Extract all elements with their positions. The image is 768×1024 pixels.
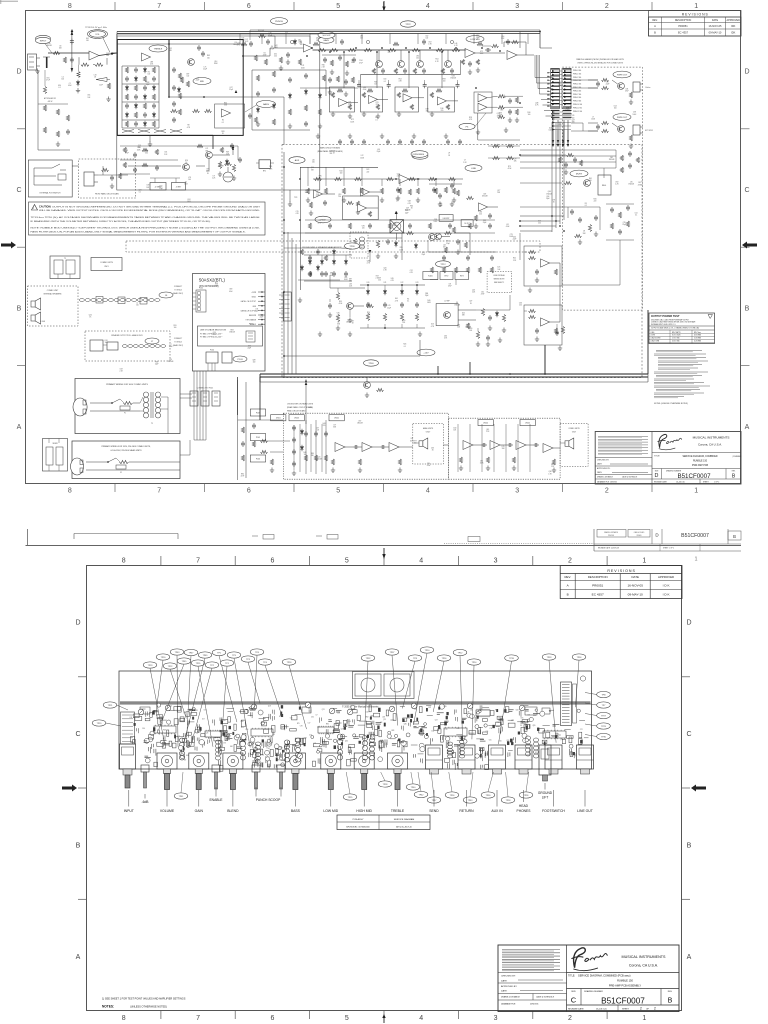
- title block signature rows: [595, 457, 652, 459]
- svg-text:0.1: 0.1: [396, 200, 398, 202]
- resistor R11: [186, 81, 189, 87]
- svg-text:2.2K: 2.2K: [551, 466, 555, 468]
- svg-text:DATABASE FILE:: DATABASE FILE:: [501, 1003, 516, 1006]
- primary wiring 120V box: [72, 441, 180, 479]
- eq bus second wire: [361, 73, 461, 75]
- gyrator cells: [376, 61, 383, 68]
- resistor R16: [254, 55, 257, 61]
- svg-text:R20: R20: [269, 166, 272, 168]
- svg-text:P/T MAX: (TYPE B) 220-240V ~: P/T MAX: (TYPE B) 220-240V ~: [200, 336, 223, 339]
- svg-text:10K: 10K: [457, 327, 461, 329]
- svg-text:D32: D32: [405, 210, 408, 212]
- svg-text:L40: L40: [312, 159, 315, 161]
- svg-text:47uF: 47uF: [427, 465, 431, 467]
- test point balloon TP1: [220, 660, 234, 666]
- crossover dotted box head: [283, 413, 448, 479]
- input jack assembly: [120, 744, 136, 769]
- clip LED arrow: [96, 78, 107, 82]
- svg-text:47uF: 47uF: [448, 286, 452, 288]
- svg-text:U81: U81: [340, 736, 343, 738]
- svg-text:P105: P105: [256, 437, 260, 439]
- svg-text:1K: 1K: [207, 173, 210, 175]
- eq series resistors: [318, 48, 326, 51]
- svg-text:C17: C17: [308, 722, 311, 724]
- svg-text:1N4148: 1N4148: [628, 184, 634, 186]
- svg-text:10K: 10K: [300, 44, 304, 46]
- page3 legal text block: [566, 945, 568, 1012]
- top double wire run: [117, 31, 540, 33]
- Q10 network: [407, 231, 414, 234]
- svg-text:100: 100: [614, 108, 617, 110]
- svg-text:VTH CHANGE: VTH CHANGE: [246, 319, 256, 322]
- svg-text:SERVICE DIAGRAM, COMBINED: SERVICE DIAGRAM, COMBINED: [682, 455, 717, 458]
- wire junction dots field: [168, 43, 170, 45]
- svg-text:Q26: Q26: [506, 740, 509, 742]
- capacitor chain C1: [71, 30, 73, 71]
- svg-text:22pF: 22pF: [546, 198, 550, 200]
- svg-text:RELEASE DATE: 24-NOV-08: RELEASE DATE: 24-NOV-08: [598, 547, 619, 550]
- Q6 network: [602, 121, 609, 124]
- feedback resistors: [78, 57, 80, 64]
- svg-text:RUMBLE 150: RUMBLE 150: [617, 979, 633, 983]
- mixer stubs: [396, 212, 398, 220]
- svg-text:100: 100: [186, 76, 189, 78]
- svg-text:6: 6: [247, 488, 251, 495]
- midleft extra parts row: [123, 147, 126, 153]
- aux top parts: [525, 707, 537, 715]
- svg-text:C69: C69: [483, 193, 486, 195]
- svg-text:-6dB: -6dB: [142, 800, 150, 804]
- test point balloon TP9: [227, 652, 241, 658]
- svg-text:L69: L69: [378, 277, 381, 279]
- svg-text:2: 2: [640, 1007, 642, 1011]
- svg-text:C77: C77: [333, 424, 336, 426]
- head speaker icon: [419, 441, 423, 447]
- svg-text:U23: U23: [382, 717, 385, 719]
- svg-text:C2: C2: [62, 76, 64, 78]
- output power test box: [649, 313, 715, 344]
- page3 size number rev row: [567, 988, 680, 990]
- page3 title section: [567, 972, 680, 974]
- svg-text:100: 100: [528, 114, 531, 116]
- svg-text:R24: R24: [403, 344, 406, 346]
- harness horizontal to primary box: [180, 393, 192, 395]
- svg-text:D15: D15: [502, 446, 505, 448]
- svg-text:PASS FILTER (BUILT-IN, FOR AN: PASS FILTER (BUILT-IN, FOR AN AUDIO-BAND…: [31, 230, 247, 233]
- svg-text:PWR+8 SIG: PWR+8 SIG: [573, 97, 582, 99]
- svg-text:(HEAD ONLY): (HEAD ONLY): [173, 344, 184, 347]
- svg-text:D1: D1: [520, 725, 522, 727]
- svg-text:22pF: 22pF: [446, 243, 450, 245]
- svg-text:L70: L70: [630, 182, 633, 184]
- svg-text:D20: D20: [427, 463, 430, 465]
- svg-text:R55: R55: [344, 277, 347, 279]
- top center parts: [376, 241, 379, 248]
- svg-text:D28: D28: [566, 108, 569, 110]
- svg-text:CAGE & SCHEDULE: CAGE & SCHEDULE: [536, 996, 555, 999]
- svg-text:Q41: Q41: [298, 39, 301, 41]
- svg-text:C73: C73: [559, 122, 562, 124]
- balloon FX: [459, 123, 475, 129]
- potentiometer LOW MID: [321, 753, 341, 769]
- svg-text:R2: R2: [222, 120, 224, 122]
- svg-text:47uF: 47uF: [481, 293, 485, 295]
- svg-text:(HEAD ONLY): (HEAD ONLY): [173, 292, 184, 295]
- svg-text:D85: D85: [521, 717, 524, 719]
- svg-text:100K: 100K: [360, 157, 365, 159]
- center v-wire A: [299, 167, 301, 290]
- svg-text:1K: 1K: [432, 450, 435, 452]
- svg-text:RELEASE DATE:: RELEASE DATE:: [568, 1008, 585, 1011]
- svg-text:22pF: 22pF: [260, 316, 264, 318]
- svg-text:LOAD: LOAD: [651, 331, 655, 334]
- svg-text:Q77: Q77: [497, 190, 500, 192]
- test point balloon TP10: [420, 647, 434, 653]
- combo units label box: [91, 258, 122, 271]
- svg-text:Q50: Q50: [407, 718, 410, 720]
- svg-text:7: 7: [196, 558, 200, 565]
- svg-text:C34: C34: [137, 147, 140, 149]
- filled arrowheads field: [235, 90, 238, 93]
- svg-text:100: 100: [338, 196, 341, 198]
- eq bus wire: [313, 49, 467, 51]
- test point balloon TP34: [572, 654, 586, 660]
- svg-text:2.2K: 2.2K: [472, 292, 476, 294]
- svg-text:APPROVED BY:: APPROVED BY:: [501, 985, 518, 988]
- page3 top center arrow: [383, 548, 385, 556]
- svg-text:CAGE & SCHEDULE: CAGE & SCHEDULE: [622, 476, 637, 479]
- svg-text:47uF: 47uF: [363, 89, 367, 91]
- ground G4b: [108, 97, 110, 100]
- svg-text:33K: 33K: [337, 324, 341, 326]
- svg-text:R44: R44: [339, 170, 342, 172]
- svg-text:PUNCH SCOOP: PUNCH SCOOP: [256, 798, 281, 802]
- thick power rails: [260, 373, 648, 375]
- test point balloon TP43: [170, 649, 184, 655]
- svg-text:1N4148: 1N4148: [482, 196, 488, 198]
- transistor Q1: [188, 59, 195, 66]
- pcb board outline: [119, 671, 592, 769]
- external footswitch box: [28, 160, 72, 197]
- svg-text:Q41: Q41: [610, 157, 613, 159]
- svg-text:C72: C72: [347, 320, 350, 322]
- ladder mid components: [172, 68, 176, 70]
- board mount hole TR: [580, 676, 585, 681]
- svg-text:PR0051: PR0051: [592, 584, 603, 588]
- svg-text:DATE: DATE: [712, 19, 719, 22]
- fender logo page1: [658, 434, 682, 449]
- output jack B: [633, 125, 640, 135]
- svg-text:U90: U90: [58, 85, 61, 87]
- balloon SCOOP: [318, 32, 335, 39]
- balloon J6: [159, 292, 173, 298]
- svg-text:CONNECT: CONNECT: [174, 286, 182, 288]
- svg-text:10K: 10K: [59, 48, 63, 50]
- svg-text:U92: U92: [615, 181, 618, 183]
- svg-text:WILL BE DAMAGED. VIEW OUTPU: WILL BE DAMAGED. VIEW OUTPUT NOTES: OSCI…: [39, 209, 261, 212]
- svg-text:D17: D17: [202, 719, 205, 721]
- combo label box1: [478, 420, 493, 426]
- test point balloon TP41: [174, 793, 188, 799]
- svg-text:4.7K: 4.7K: [367, 263, 371, 265]
- transistor Q5: [618, 83, 625, 90]
- svg-text:L46: L46: [455, 43, 458, 45]
- svg-text:SEE SHEET 2: SEE SHEET 2: [494, 282, 504, 284]
- svg-text:U52: U52: [274, 53, 277, 55]
- svg-text:R40: R40: [427, 300, 430, 302]
- svg-text:C66: C66: [268, 744, 271, 746]
- svg-text:1: 1: [694, 557, 697, 563]
- svg-text:100K: 100K: [184, 184, 189, 186]
- svg-text:47uF: 47uF: [46, 80, 50, 82]
- svg-text:T2: T2: [64, 258, 66, 260]
- dual op-amp U10: [478, 94, 487, 102]
- test point balloon TP28: [378, 781, 392, 787]
- svg-text:IF MEASURED WITH THE VOLMETER: IF MEASURED WITH THE VOLMETER BETWEEN, D…: [31, 220, 212, 223]
- svg-text:100: 100: [412, 156, 415, 158]
- head amp A1: [335, 443, 345, 452]
- svg-text:COMBO UNIT: COMBO UNIT: [47, 290, 59, 292]
- svg-text:U72: U72: [480, 51, 483, 53]
- front panel jack: [84, 172, 94, 186]
- svg-text:R83: R83: [443, 79, 446, 81]
- svg-text:HEAD: HEAD: [519, 804, 529, 808]
- svg-text:© 2005 Fender Musical Instrume: © 2005 Fender Musical Instruments: [342, 706, 379, 709]
- pcb interior second pass: [569, 749, 571, 756]
- xover inter wires: [559, 263, 561, 322]
- svg-text:C65: C65: [489, 740, 492, 742]
- xover head label box2: [329, 415, 344, 421]
- page2 bottom border: [26, 545, 742, 547]
- resistor ladder grid: [125, 67, 128, 73]
- svg-text:0.1: 0.1: [635, 214, 637, 216]
- xfmr small box: [43, 439, 68, 472]
- svg-text:22pF: 22pF: [229, 89, 233, 91]
- svg-text:FRONT PANEL CIRCUIT BOARD: FRONT PANEL CIRCUIT BOARD: [95, 193, 120, 196]
- mini switch ENABLE: [212, 765, 220, 772]
- svg-text:4.7K: 4.7K: [408, 203, 412, 205]
- svg-text:D14: D14: [614, 105, 617, 107]
- svg-text:R83: R83: [551, 464, 554, 466]
- diode D2: [177, 89, 180, 92]
- svg-text:100: 100: [304, 454, 307, 456]
- transistor Q10: [429, 234, 436, 241]
- svg-text:RETURN: RETURN: [459, 809, 474, 813]
- svg-text:D29: D29: [120, 369, 123, 371]
- svg-text:CHECKED BY:: CHECKED BY:: [501, 976, 516, 978]
- svg-text:L78: L78: [301, 65, 304, 67]
- balloon LOW MID: [466, 36, 484, 43]
- svg-text:TP22: TP22: [405, 24, 411, 26]
- fuse 100V: [120, 406, 130, 410]
- resistor R17: [259, 34, 266, 37]
- svg-text:5: 5: [345, 1015, 349, 1022]
- balloon MID: [193, 78, 211, 85]
- svg-text:DATE:: DATE:: [501, 990, 508, 993]
- mid-treble board outline: [117, 34, 320, 190]
- svg-text:220: 220: [594, 201, 597, 203]
- pot icon: [223, 172, 233, 182]
- svg-text:C73: C73: [223, 743, 226, 745]
- svg-text:220: 220: [274, 55, 277, 57]
- svg-text:16-NOV-05: 16-NOV-05: [627, 584, 643, 588]
- svg-text:APPROVED: APPROVED: [727, 19, 741, 22]
- svg-text:D20: D20: [367, 282, 370, 284]
- svg-text:100: 100: [416, 57, 419, 59]
- svg-text:U69: U69: [229, 289, 232, 291]
- svg-text:C58: C58: [337, 713, 340, 715]
- relay box K2: [440, 272, 453, 280]
- svg-text:Q21: Q21: [322, 709, 325, 711]
- speaker wires twisted: [79, 298, 85, 300]
- footswitch contacts: [34, 167, 52, 169]
- front panel dashed box: [79, 159, 136, 198]
- svg-text:Q4: Q4: [271, 46, 273, 48]
- svg-text:100K: 100K: [480, 53, 485, 55]
- pcb coil arrays: [240, 736, 245, 741]
- svg-text:D21: D21: [384, 282, 387, 284]
- speaker pcb dashed box: [85, 331, 170, 361]
- svg-text:TP30: TP30: [349, 246, 355, 248]
- svg-text:L78: L78: [388, 50, 391, 52]
- test point balloon TP40: [406, 784, 420, 790]
- svg-text:OUTPUT POWER TEST: OUTPUT POWER TEST: [651, 314, 680, 318]
- svg-text:C89: C89: [500, 108, 503, 110]
- svg-text:I D K: I D K: [663, 584, 671, 588]
- svg-text:L64: L64: [635, 212, 638, 214]
- eq op-amp cell 3: [395, 87, 418, 112]
- svg-text:2.2K: 2.2K: [463, 162, 467, 164]
- balloon AUX: [289, 157, 305, 164]
- resistor R18: [264, 59, 267, 65]
- resistor R19: [279, 57, 282, 63]
- pcb interior components field: [419, 707, 422, 713]
- svg-text:220: 220: [378, 280, 381, 282]
- svg-text:DATE:: DATE:: [597, 463, 603, 466]
- svg-text:MAIN CIRCUIT BOARD: MAIN CIRCUIT BOARD: [320, 147, 341, 150]
- svg-text:Q7 IRF: Q7 IRF: [444, 301, 449, 303]
- svg-text:220: 220: [376, 104, 379, 106]
- svg-text:R72: R72: [351, 119, 354, 121]
- dashed box header note: [562, 67, 642, 310]
- resistor R14: [254, 117, 257, 123]
- svg-text:22pF: 22pF: [439, 205, 443, 207]
- svg-text:100: 100: [360, 38, 363, 40]
- fx loop box L: [150, 183, 166, 191]
- svg-text:100K: 100K: [214, 63, 219, 65]
- svg-text:Q34: Q34: [138, 189, 141, 191]
- svg-text:4.7K: 4.7K: [410, 272, 414, 274]
- svg-text:Q74: Q74: [397, 174, 400, 176]
- svg-text:Q47: Q47: [572, 119, 575, 121]
- svg-text:R E V I S I O N S: R E V I S I O N S: [682, 13, 709, 17]
- svg-text:5: 5: [336, 488, 340, 495]
- svg-text:D23: D23: [416, 282, 419, 284]
- balloon SEND: [289, 157, 305, 163]
- ribbon connector P1: [551, 69, 560, 109]
- svg-text:33K: 33K: [503, 97, 507, 99]
- svg-text:D87: D87: [186, 73, 189, 75]
- svg-text:C: C: [744, 187, 749, 194]
- test point balloon TP16: [437, 655, 451, 661]
- svg-text:220: 220: [479, 213, 482, 215]
- power extra diode row: [308, 261, 311, 264]
- svg-text:PWR+4 SIG: PWR+4 SIG: [573, 84, 582, 86]
- svg-text:PHONES: PHONES: [517, 809, 532, 813]
- mini switch PUNCH: [252, 765, 260, 772]
- balloon OUT A: [613, 71, 631, 78]
- svg-text:SERVICE DIAGRAM: SERVICE DIAGRAM: [394, 818, 415, 821]
- svg-text:1N4148: 1N4148: [357, 423, 363, 425]
- svg-text:B: B: [654, 31, 656, 35]
- svg-text:RIBBON & HEADER (PHONO) INSTAL: RIBBON & HEADER (PHONO) INSTALLED FOR HE…: [576, 58, 624, 61]
- svg-text:C16: C16: [351, 60, 354, 62]
- svg-text:HEAD CIRCUIT BOARD: HEAD CIRCUIT BOARD: [287, 409, 306, 412]
- title section page1: [652, 452, 741, 454]
- module bottom connectors: [206, 352, 218, 363]
- svg-text:PWR+0 SIG: PWR+0 SIG: [573, 70, 582, 72]
- svg-text:5: 5: [336, 3, 340, 10]
- test point balloon TP5: [212, 649, 226, 655]
- svg-text:100: 100: [253, 362, 256, 364]
- svg-text:R92: R92: [208, 738, 211, 740]
- svg-text:D36: D36: [440, 108, 443, 110]
- svg-text:L75: L75: [204, 66, 207, 68]
- svg-text:D: D: [744, 69, 749, 76]
- svg-text:25NOV05: 25NOV05: [608, 535, 614, 537]
- svg-text:47uF: 47uF: [229, 291, 233, 293]
- release row page1: [652, 478, 741, 480]
- svg-text:Q65: Q65: [345, 741, 348, 743]
- svg-text:4.7K: 4.7K: [295, 213, 299, 215]
- svg-text:B/N MODEL: 0076030000: B/N MODEL: 0076030000: [346, 826, 370, 828]
- svg-text:LOAD 8/4 OHM: LOAD 8/4 OHM: [651, 337, 662, 340]
- svg-text:33K: 33K: [502, 448, 506, 450]
- svg-text:PWR+7 SIG: PWR+7 SIG: [573, 94, 582, 96]
- svg-text:8 OHM: 8 OHM: [40, 321, 46, 323]
- top bus small parts: [241, 42, 247, 45]
- page 1 top center arrow: [383, 1, 385, 8]
- svg-text:DRAWN & DISTANCE: DRAWN & DISTANCE: [501, 996, 521, 999]
- resistor R10: [180, 77, 183, 83]
- svg-text:PWR+3 SIG: PWR+3 SIG: [573, 80, 582, 82]
- svg-text:100: 100: [105, 342, 108, 344]
- svg-text:PHONES: PHONES: [415, 154, 425, 156]
- svg-text:D44: D44: [431, 731, 434, 733]
- svg-text:SIZE: SIZE: [655, 470, 659, 472]
- svg-text:D68: D68: [230, 746, 233, 748]
- speaker pcb jacks: [90, 340, 103, 351]
- svg-text:U30: U30: [308, 708, 311, 710]
- head vertical stubs: [305, 420, 307, 474]
- resistor R8b: [107, 83, 110, 89]
- svg-text:REV.: REV.: [668, 991, 673, 993]
- right parts cluster: [432, 188, 436, 190]
- svg-text:47uF: 47uF: [339, 303, 343, 305]
- svg-text:D61: D61: [480, 461, 483, 463]
- svg-text:C57: C57: [527, 714, 530, 716]
- svg-text:22pF: 22pF: [196, 80, 200, 82]
- node balloon VOL: [88, 30, 108, 39]
- svg-text:F2: F2: [120, 472, 122, 474]
- svg-text:LOAD 8 OHM: LOAD 8 OHM: [651, 340, 660, 343]
- svg-text:NEGPWR: NEGPWR: [249, 315, 257, 317]
- svg-text:C1: C1: [69, 83, 71, 85]
- svg-text:OUTPUT VOLTAGE (TRUE 2), 4 W -: OUTPUT VOLTAGE (TRUE 2), 4 W - 1 CHANNEL…: [651, 327, 699, 330]
- test point balloon TP12: [453, 649, 467, 655]
- svg-text:C30: C30: [311, 717, 314, 719]
- svg-text:R95: R95: [155, 361, 158, 363]
